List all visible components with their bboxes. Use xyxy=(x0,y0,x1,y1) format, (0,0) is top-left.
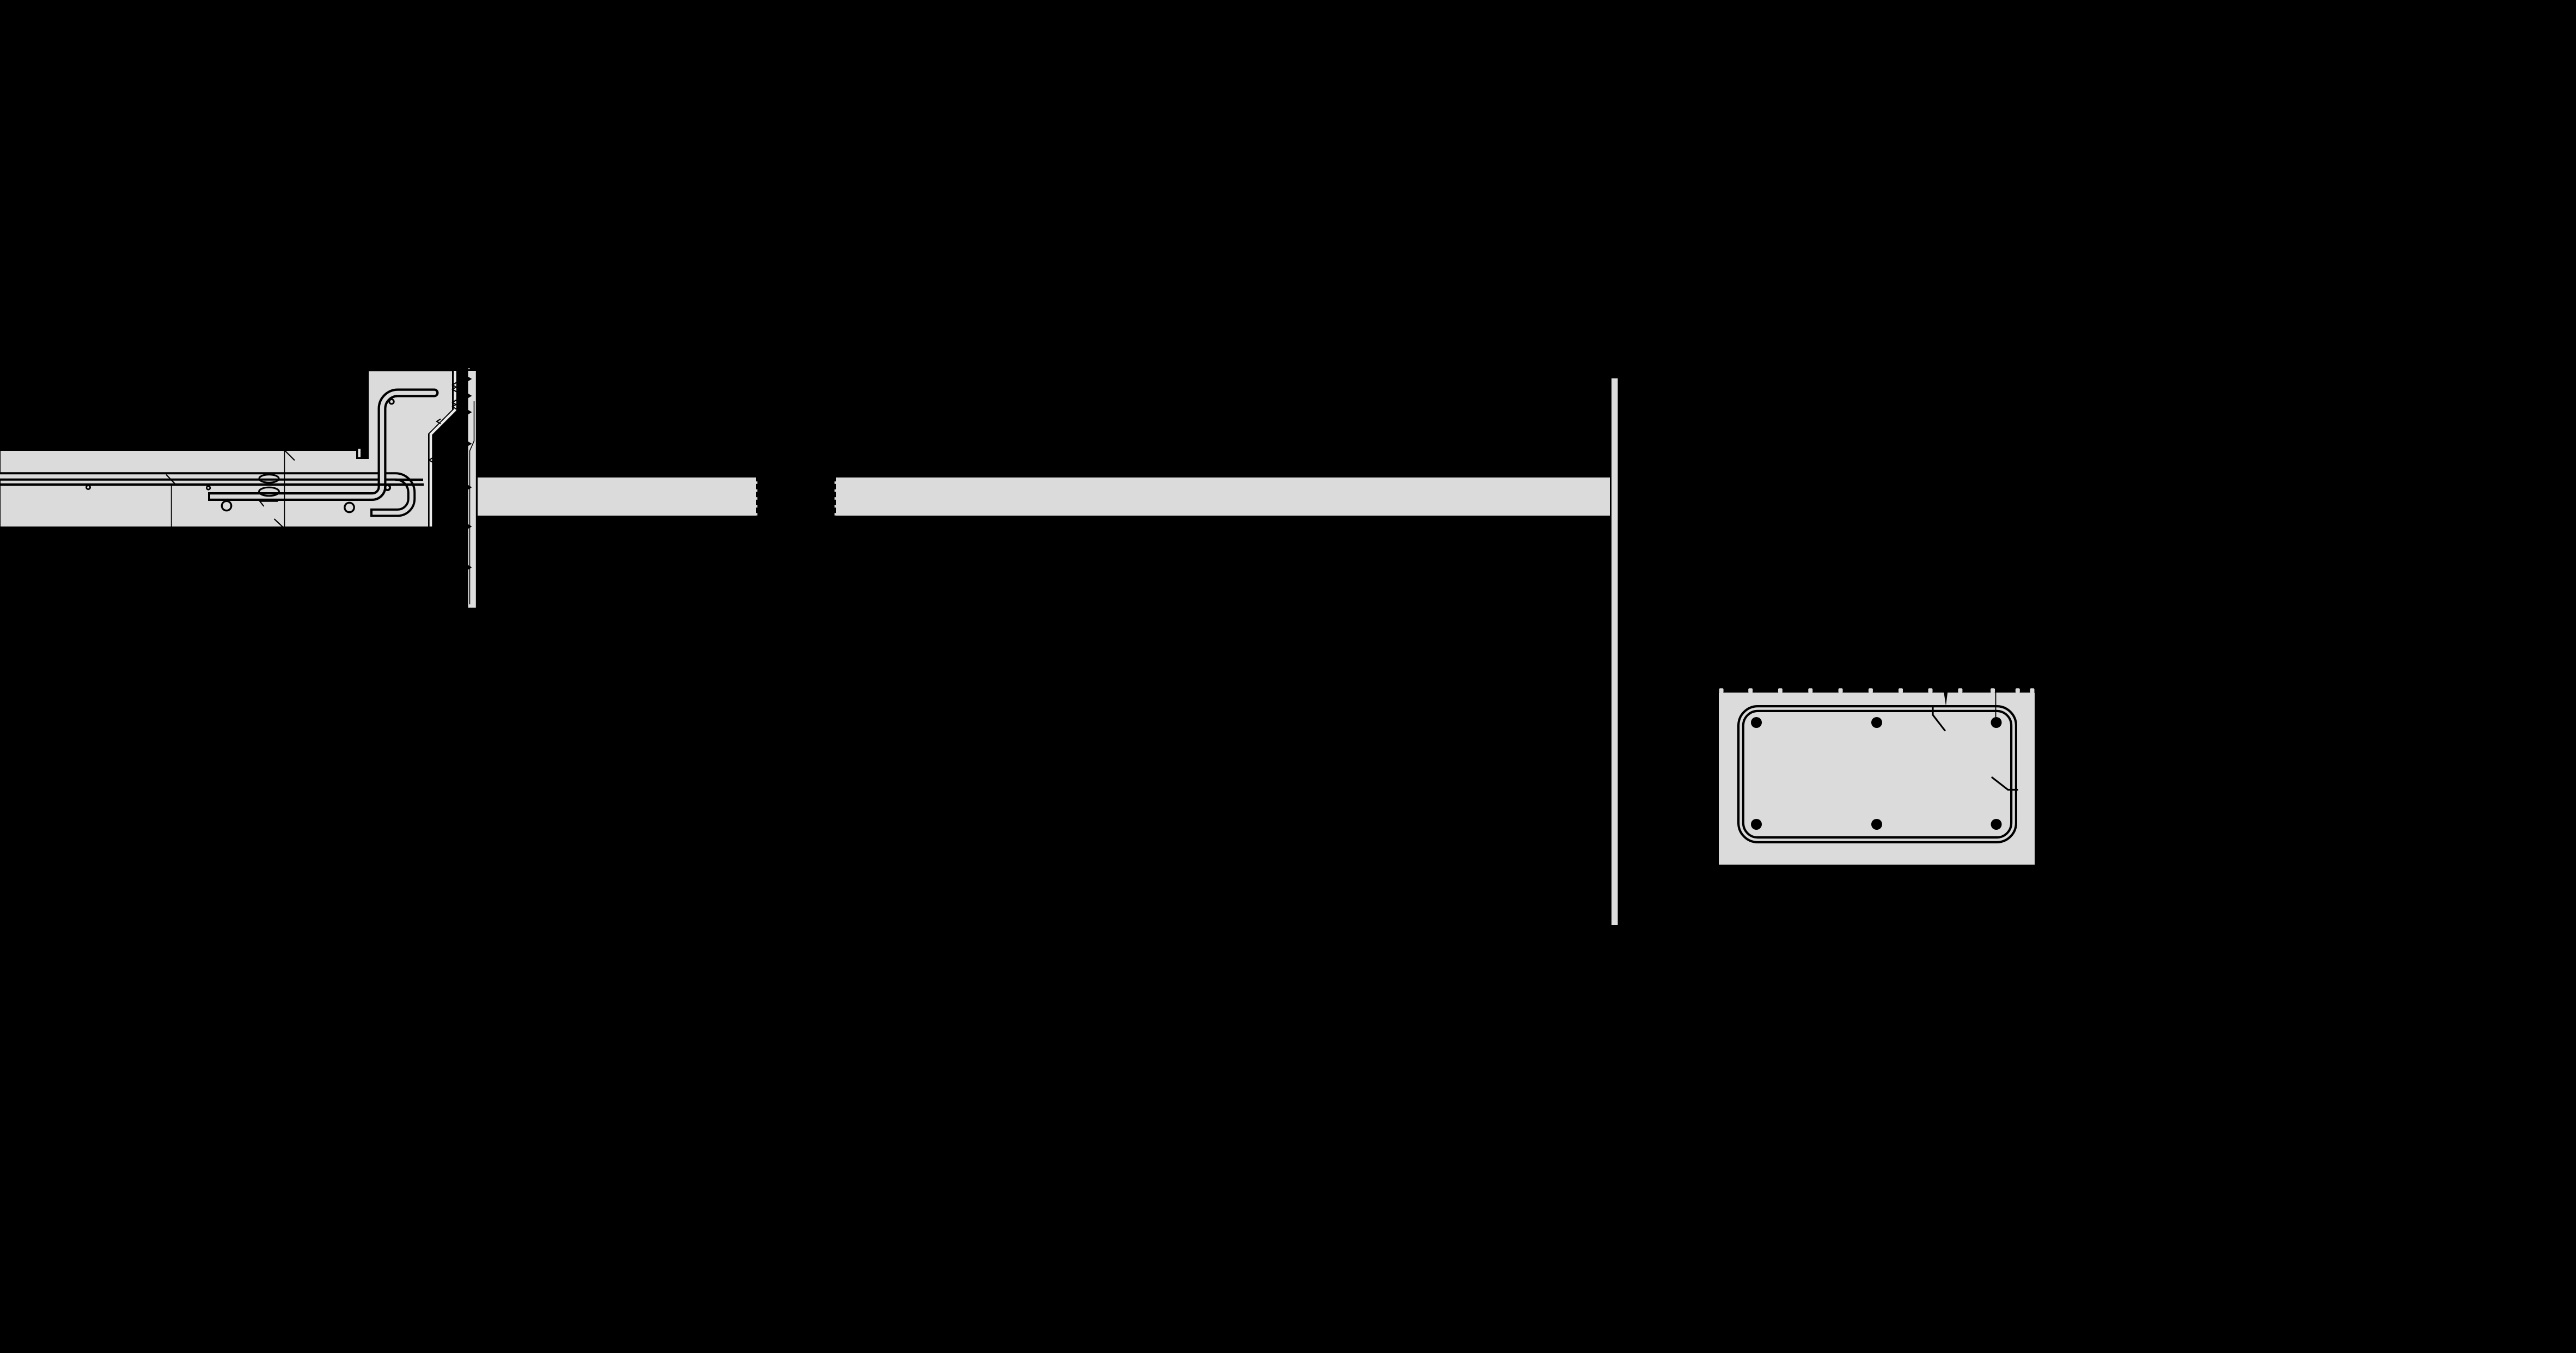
bar end tick xyxy=(259,501,264,506)
grid line V1 xyxy=(171,485,172,527)
big bar section circle c5 xyxy=(345,503,354,512)
tick T3 xyxy=(274,519,284,528)
dowel line inside formwork strip xyxy=(470,401,474,604)
concrete slab with upstand (left body) xyxy=(0,371,453,527)
break line right xyxy=(834,481,836,516)
bar end mark line xyxy=(260,501,278,502)
arrow b xyxy=(1943,689,1948,706)
break line left xyxy=(756,481,758,516)
anchor arrows on formwork strip xyxy=(468,377,472,570)
big bar section circle c4 xyxy=(222,501,231,510)
anchor arrows on upstand face xyxy=(429,383,456,463)
bar section circle c3 xyxy=(385,485,390,490)
insulation strip along upstand face xyxy=(431,371,455,526)
wall panel strip xyxy=(1611,378,1618,925)
middle slab bar xyxy=(0,483,424,486)
leader d xyxy=(1992,777,2017,790)
bar section circle c2 xyxy=(206,486,210,489)
beam cross-section concrete xyxy=(1719,693,2035,865)
wall hairpin stirrup (outlined bar) xyxy=(208,389,439,497)
longitudinal bars xyxy=(1751,717,2002,830)
top bar with end hook U (outlined bar) xyxy=(0,476,412,513)
precast plank segment 2 xyxy=(836,477,1610,516)
precast plank segment 1 xyxy=(478,477,756,516)
bar stub xyxy=(395,479,423,481)
bar section circle c1 xyxy=(87,486,90,489)
lap splice ellipse upper xyxy=(259,475,279,483)
white dash above strip xyxy=(468,369,470,370)
formwork strip beside upstand xyxy=(468,371,476,608)
joint sealing tab in drip notch xyxy=(358,449,361,457)
tick T2 xyxy=(285,451,295,461)
bar section circle in upstand hook xyxy=(389,399,394,403)
tick T1 xyxy=(166,475,177,486)
leader line c xyxy=(1995,693,1997,723)
lap splice ellipse lower xyxy=(259,487,279,496)
rough break top edge spikes xyxy=(1719,688,2035,693)
leader a xyxy=(1933,708,1945,731)
grid line V2 xyxy=(284,450,285,527)
stirrup (outlined bar) xyxy=(1741,709,2014,840)
